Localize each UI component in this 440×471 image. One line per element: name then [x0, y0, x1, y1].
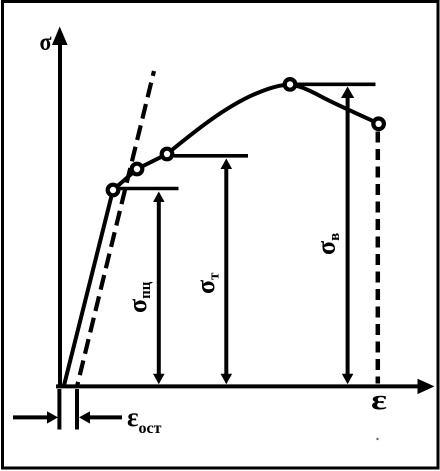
- point circle 2: [132, 164, 143, 175]
- stray scan dot: [376, 438, 378, 440]
- sigma_t level line: [174, 154, 248, 158]
- sigma_v double arrow: [341, 87, 354, 385]
- dashed unloading line: [77, 71, 154, 387]
- left arrow to ticks: [13, 411, 58, 423]
- point circle 1 (proportionality limit): [108, 185, 119, 196]
- point circle 3 (yield point): [162, 149, 173, 160]
- sigma_t double arrow: [221, 159, 233, 385]
- stress-strain curve: [64, 85, 379, 386]
- residual strain tick below axis: [75, 389, 79, 430]
- right arrow to ticks: [79, 411, 122, 423]
- point circle 5 (fracture): [373, 119, 384, 130]
- sigma_pc level line: [120, 187, 179, 191]
- dashed vertical fracture line: [376, 132, 381, 384]
- point circle 4 (ultimate strength): [285, 79, 296, 90]
- svg-text:σ: σ: [40, 29, 52, 56]
- sigma_pc double arrow: [153, 192, 165, 385]
- svg-text:ε: ε: [371, 385, 387, 416]
- x-axis (epsilon axis): [56, 379, 435, 394]
- y-axis (sigma axis): [52, 27, 68, 389]
- origin tick below axis: [57, 389, 61, 430]
- sigma_v level line: [296, 83, 376, 87]
